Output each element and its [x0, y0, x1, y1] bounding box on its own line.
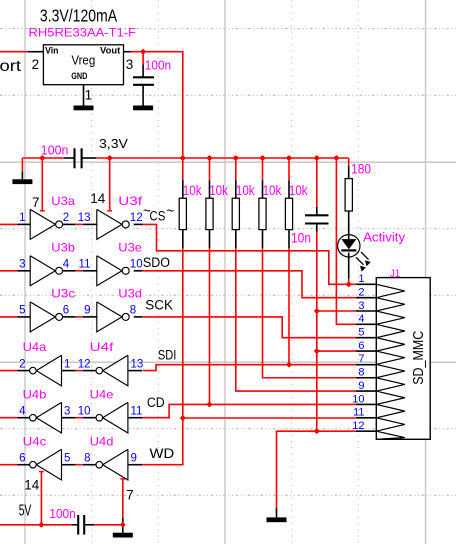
svg-text:5V: 5V: [19, 503, 32, 520]
wire R3 bottom to pin 9: [236, 248, 356, 391]
capacitor 100n on bus plates: [73, 148, 75, 168]
inverter U3f: [97, 209, 122, 239]
svg-text:GND: GND: [71, 71, 87, 81]
svg-text:6: 6: [19, 452, 25, 464]
svg-text:6: 6: [63, 305, 69, 317]
ground bottom-middle: [113, 533, 133, 538]
bus 100n cap stubs: [64, 157, 75, 159]
wire 5V rail: [0, 524, 72, 526]
svg-text:ort: ort: [0, 58, 22, 75]
svg-text:SDI: SDI: [158, 348, 177, 363]
180 resistor stubs / LED column: [348, 166, 350, 179]
inverter U4c: [36, 449, 61, 480]
svg-text:Vin: Vin: [45, 46, 59, 57]
wire Vreg input from port: [0, 51, 28, 53]
svg-text:8: 8: [358, 367, 364, 379]
LED arrows: [356, 252, 371, 272]
svg-text:9: 9: [358, 380, 364, 392]
svg-text:SDO: SDO: [143, 255, 170, 270]
wire pin 6 ground: [317, 350, 356, 352]
svg-text:U4e: U4e: [90, 387, 114, 401]
svg-text:9: 9: [84, 305, 90, 317]
svg-text:14: 14: [24, 477, 40, 492]
svg-text:10: 10: [352, 393, 364, 405]
svg-text:13: 13: [131, 358, 144, 370]
wire WD net: [142, 418, 355, 465]
svg-text:5: 5: [64, 452, 70, 464]
capacitor C2 100n plates: [133, 76, 154, 78]
capacitor C2 stubs: [142, 64, 144, 77]
ground under Vreg: [74, 106, 94, 111]
wire SDO net: [142, 271, 355, 298]
ground stub bottom-right: [276, 508, 278, 517]
svg-text:100n: 100n: [41, 144, 69, 158]
wire R4 bottom to pin 8: [263, 248, 356, 378]
wire ground stub top-left: [21, 158, 23, 172]
inverter U4f: [103, 355, 128, 386]
svg-text:10: 10: [130, 259, 143, 271]
svg-text:1: 1: [19, 212, 25, 224]
wire U3a pin 7: [41, 158, 43, 211]
svg-text:8: 8: [130, 305, 136, 317]
svg-text:2: 2: [63, 212, 69, 224]
svg-text:SD_MMC: SD_MMC: [411, 331, 427, 385]
inverter U3c: [30, 302, 55, 332]
gate pin stubs: [18, 223, 31, 225]
5V rail 100n stubs: [72, 524, 78, 526]
svg-text:1: 1: [85, 87, 93, 102]
wire U4d pin 7: [122, 479, 124, 518]
svg-text:SCK: SCK: [145, 298, 173, 313]
svg-text:2: 2: [19, 358, 25, 370]
svg-text:~: ~: [166, 203, 174, 218]
svg-text:3.3V/120mA: 3.3V/120mA: [40, 5, 118, 25]
svg-text:8: 8: [84, 452, 90, 464]
wire ground net 10n to pin12: [316, 232, 318, 432]
svg-text:U4d: U4d: [90, 434, 114, 448]
inverter U4b: [36, 402, 61, 433]
wire LED bottom to pin 1 junction: [348, 279, 350, 285]
svg-text:5: 5: [19, 305, 25, 317]
pin stub Vreg pin 1 GND: [83, 85, 85, 106]
capacitor 100n bottom plates: [77, 515, 79, 535]
wire 10n top: [316, 158, 318, 207]
svg-text:U3f: U3f: [118, 194, 143, 208]
svg-text:U4c: U4c: [23, 434, 47, 448]
svg-text:7: 7: [32, 195, 40, 210]
wire SDI net: [143, 365, 356, 371]
wire bus to pin 4: [336, 158, 355, 324]
wire pin 3 ground: [317, 310, 356, 312]
wire R5 bottom to SDI junction: [288, 248, 290, 365]
svg-text:1: 1: [358, 273, 364, 285]
wires gate inputs at left edge: [0, 223, 18, 225]
wire pin 12 to ground: [277, 431, 356, 508]
wire U4c pin 14: [40, 471, 42, 525]
svg-text:100n: 100n: [145, 59, 171, 73]
svg-text:Activity: Activity: [363, 231, 406, 245]
wire CS~ net: [142, 224, 356, 284]
resistors R1-R5 10k bodies: [179, 198, 186, 229]
pin stub Vreg pin 2: [28, 51, 44, 53]
inverter U3e: [97, 256, 122, 286]
svg-text:U4a: U4a: [23, 340, 47, 354]
ground stub bottom-middle: [122, 518, 124, 533]
junction dots: [140, 49, 146, 55]
svg-text:3: 3: [64, 405, 70, 417]
wire 3.3V bus: [96, 157, 349, 159]
svg-text:U3d: U3d: [118, 287, 142, 301]
svg-text:3,3V: 3,3V: [99, 136, 128, 151]
svg-text:10k: 10k: [289, 182, 309, 198]
svg-text:4: 4: [63, 259, 70, 271]
wire R2 bottom to CD junction: [209, 248, 211, 404]
connector J1 body: [376, 278, 430, 440]
svg-text:CD: CD: [147, 395, 165, 410]
svg-text:U3e: U3e: [118, 241, 142, 255]
svg-text:10n: 10n: [291, 230, 311, 246]
svg-text:U4b: U4b: [23, 387, 47, 401]
svg-text:U3c: U3c: [51, 287, 75, 301]
svg-text:7: 7: [126, 488, 134, 503]
svg-text:6: 6: [358, 340, 364, 352]
svg-text:10k: 10k: [263, 182, 283, 198]
svg-text:1: 1: [64, 358, 70, 370]
wire SCK net: [142, 317, 355, 338]
capacitor 10n plates: [305, 214, 329, 216]
wire R1 bottom to WD junction: [182, 248, 184, 418]
wire U3f pin 14: [109, 158, 111, 211]
svg-text:12: 12: [78, 358, 91, 370]
ground stub top-left: [21, 172, 23, 180]
inverter U4a: [36, 355, 61, 386]
svg-text:12: 12: [130, 212, 143, 224]
svg-text:180: 180: [351, 161, 371, 177]
svg-text:10k: 10k: [209, 182, 229, 198]
svg-text:U3a: U3a: [51, 194, 75, 208]
svg-text:4: 4: [19, 405, 26, 417]
svg-text:J1: J1: [390, 268, 401, 280]
svg-text:14: 14: [90, 191, 106, 206]
connector pin stubs: [356, 283, 377, 285]
inverter U4e: [103, 402, 128, 433]
svg-text:9: 9: [131, 452, 137, 464]
svg-text:CS: CS: [149, 208, 165, 223]
svg-text:3: 3: [358, 300, 364, 312]
10n cap stubs: [316, 207, 318, 215]
wire resistor tops: [182, 158, 184, 181]
svg-text:11: 11: [353, 407, 364, 419]
wire C2 top: [142, 52, 144, 64]
svg-text:100n: 100n: [49, 507, 75, 521]
svg-text:10: 10: [78, 405, 91, 417]
svg-text:2: 2: [32, 57, 40, 72]
ground bottom-right: [267, 517, 287, 522]
svg-text:5: 5: [358, 327, 364, 339]
connector J1 zigzag: [376, 284, 405, 439]
ground top-left: [12, 179, 32, 184]
wire Vreg output to 3.3V bus: [131, 52, 183, 158]
wire bus ground segment: [22, 157, 64, 159]
LED D1 Activity: [338, 235, 360, 257]
svg-text:RH5RE33AA-T1-F: RH5RE33AA-T1-F: [29, 26, 137, 40]
svg-text:11: 11: [79, 259, 91, 271]
resistor pin stubs: [182, 181, 184, 199]
ground under C2: [133, 106, 153, 111]
svg-text:3: 3: [19, 259, 25, 271]
svg-text:10k: 10k: [183, 182, 203, 198]
wire CD net: [142, 404, 355, 417]
resistor 180 body: [345, 179, 352, 211]
grid minor vertical dotted lines: [92, 0, 359, 544]
svg-text:Vreg: Vreg: [71, 53, 95, 67]
svg-text:Vout: Vout: [100, 46, 121, 57]
svg-text:WD: WD: [150, 446, 175, 461]
inverter U3b: [30, 256, 55, 286]
svg-text:13: 13: [78, 212, 91, 224]
svg-text:10k: 10k: [236, 182, 256, 198]
svg-text:12: 12: [352, 420, 364, 432]
wire bus corner to 180 resistor: [348, 158, 350, 166]
svg-text:4: 4: [358, 313, 364, 325]
inverter U4d: [103, 449, 128, 480]
svg-text:7: 7: [358, 353, 364, 365]
pin stub Vreg pin 3: [124, 51, 132, 53]
svg-text:U3b: U3b: [51, 241, 75, 255]
voltage regulator U-Vreg box: [43, 45, 123, 85]
wires between gate pairs: [75, 223, 83, 225]
svg-text:2: 2: [358, 286, 364, 298]
svg-text:3: 3: [126, 57, 134, 72]
svg-text:U4f: U4f: [90, 340, 115, 354]
svg-text:11: 11: [131, 405, 143, 417]
inverter U3a: [30, 209, 55, 239]
inverter U3d: [97, 302, 122, 332]
